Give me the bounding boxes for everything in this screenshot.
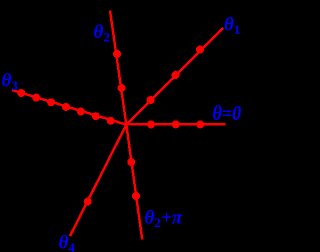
label theta2 [94, 22, 110, 45]
dots on ray theta1 [147, 46, 204, 105]
dots on ray theta=0 [147, 120, 204, 128]
ray theta3 [12, 90, 126, 125]
dots on ray theta2+pi [127, 158, 140, 200]
ray theta2+pi [126, 125, 142, 240]
ray theta4 [70, 125, 126, 236]
svg-text:θ2+π: θ2+π [145, 208, 183, 231]
dots on ray theta2 [113, 50, 126, 92]
svg-text:θ=0: θ=0 [213, 102, 242, 126]
ray theta=0 (positive real axis) [126, 123, 225, 126]
label theta3 [2, 71, 19, 94]
label theta=0 [213, 102, 242, 126]
dot on ray theta4 [84, 198, 92, 206]
ray theta2 [110, 11, 126, 125]
dots on ray theta3 [17, 89, 114, 125]
ray theta1 [126, 28, 223, 125]
label theta1 [224, 15, 240, 38]
label theta2+pi [145, 208, 183, 231]
label theta4 [59, 233, 76, 252]
